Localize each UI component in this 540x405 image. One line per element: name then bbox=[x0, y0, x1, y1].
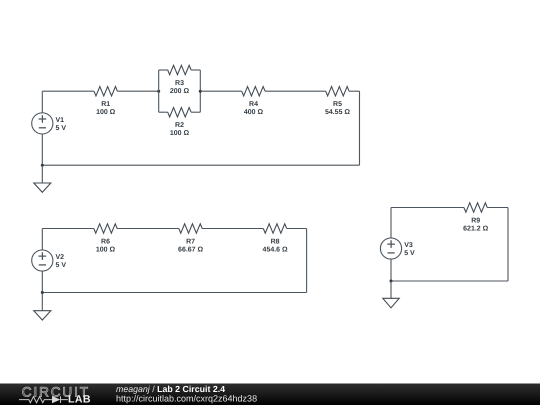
wire ground3 stub bbox=[390, 281, 392, 298]
node ground1 junction bbox=[41, 164, 44, 167]
wire ground1 stub bbox=[41, 165, 43, 183]
svg-text:5 V: 5 V bbox=[404, 250, 415, 257]
voltage source V1 bbox=[32, 113, 53, 134]
wire V2 top stub bbox=[41, 229, 43, 250]
wire top left to R6 bbox=[42, 228, 94, 230]
ground bbox=[383, 298, 399, 308]
wire bottom circuit1 bbox=[42, 164, 359, 166]
wire top left to R1 bbox=[42, 90, 94, 92]
svg-text:R8: R8 bbox=[271, 238, 280, 245]
svg-text:54.55 Ω: 54.55 Ω bbox=[325, 109, 350, 116]
svg-text:100 Ω: 100 Ω bbox=[96, 247, 116, 254]
svg-text:R9: R9 bbox=[471, 217, 480, 224]
wire ground2 stub bbox=[41, 293, 43, 311]
logo wire glyph bbox=[19, 396, 68, 403]
svg-text:R1: R1 bbox=[101, 101, 110, 108]
label V1 5V bbox=[56, 117, 67, 132]
ground bbox=[34, 183, 51, 192]
wire R4 to R5 bbox=[265, 90, 326, 92]
wire V3 top stub bbox=[390, 208, 392, 238]
wire right vertical circuit2 bbox=[306, 229, 308, 293]
wire R8 to right edge bbox=[287, 228, 307, 230]
node ground2 junction bbox=[41, 291, 44, 294]
svg-text:100 Ω: 100 Ω bbox=[96, 109, 116, 116]
wire top left to R9 bbox=[391, 207, 464, 209]
wire R3 left lead bbox=[159, 69, 168, 71]
wire bottom circuit3 bbox=[391, 280, 508, 282]
svg-text:meaganj / Lab 2 Circuit 2.4: meaganj / Lab 2 Circuit 2.4 bbox=[116, 384, 225, 394]
svg-text:R2: R2 bbox=[175, 122, 184, 129]
svg-text:V1: V1 bbox=[56, 117, 65, 124]
wire parallel left vertical bbox=[158, 70, 160, 112]
resistor R6 bbox=[94, 224, 117, 233]
label R4 400 bbox=[244, 101, 264, 116]
wire V2 bottom stub bbox=[41, 271, 43, 292]
label V2 5V bbox=[56, 254, 67, 269]
resistor R2 bbox=[168, 107, 191, 116]
voltage source V3 bbox=[380, 238, 401, 259]
label R2 100 bbox=[170, 122, 190, 137]
voltage source V2 bbox=[32, 250, 53, 271]
label R5 54.55 bbox=[325, 101, 350, 116]
resistor R4 bbox=[242, 86, 265, 95]
wire V3 bottom stub bbox=[390, 259, 392, 281]
svg-text:5 V: 5 V bbox=[56, 125, 67, 132]
svg-text:R7: R7 bbox=[186, 238, 195, 245]
resistor R1 bbox=[94, 86, 117, 95]
svg-text:R5: R5 bbox=[333, 101, 342, 108]
wire node B to R4 bbox=[200, 90, 241, 92]
wire R3 right lead bbox=[191, 69, 200, 71]
label V3 5V bbox=[404, 242, 415, 257]
wire R2 left lead bbox=[159, 111, 168, 113]
svg-text:200 Ω: 200 Ω bbox=[170, 88, 190, 95]
resistor R8 bbox=[263, 224, 286, 233]
node ground3 junction bbox=[390, 280, 393, 283]
node B bbox=[199, 90, 202, 93]
resistor R5 bbox=[326, 86, 349, 95]
svg-text:R6: R6 bbox=[101, 238, 110, 245]
label R9 621.2 bbox=[463, 217, 488, 232]
logo diode triangle bbox=[52, 396, 60, 403]
label R1 100 bbox=[96, 101, 116, 116]
wire V1 bottom stub bbox=[41, 134, 43, 165]
svg-text:454.6 Ω: 454.6 Ω bbox=[263, 247, 288, 254]
svg-text:R3: R3 bbox=[175, 80, 184, 87]
svg-text:66.67 Ω: 66.67 Ω bbox=[178, 247, 203, 254]
svg-text:V3: V3 bbox=[404, 242, 413, 249]
svg-text:400 Ω: 400 Ω bbox=[244, 109, 264, 116]
resistor R7 bbox=[179, 224, 202, 233]
label R6 100 bbox=[96, 238, 116, 253]
wire right vertical circuit1 bbox=[359, 91, 361, 165]
svg-text:100 Ω: 100 Ω bbox=[170, 130, 190, 137]
svg-text:621.2 Ω: 621.2 Ω bbox=[463, 226, 488, 233]
svg-text:LAB: LAB bbox=[68, 394, 91, 405]
wire R5 to right edge bbox=[349, 90, 360, 92]
wire right vertical circuit3 bbox=[507, 208, 509, 282]
wire bottom circuit2 bbox=[42, 292, 306, 294]
node A bbox=[157, 90, 160, 93]
wire R7 to R8 bbox=[202, 228, 263, 230]
svg-text:5 V: 5 V bbox=[56, 262, 67, 269]
label R7 66.67 bbox=[178, 238, 203, 253]
wire R2 right lead bbox=[191, 111, 200, 113]
ground bbox=[34, 311, 51, 320]
resistor R9 bbox=[464, 203, 487, 212]
wire R9 to right edge bbox=[487, 207, 508, 209]
wire R1 to node A bbox=[117, 90, 158, 92]
wire parallel right vertical bbox=[199, 70, 201, 112]
wire V1 top stub bbox=[41, 91, 43, 113]
resistor R3 bbox=[168, 65, 191, 74]
svg-text:R4: R4 bbox=[249, 101, 258, 108]
label R8 454.6 bbox=[263, 238, 288, 253]
svg-text:http://circuitlab.com/cxrq2z64: http://circuitlab.com/cxrq2z64hdz38 bbox=[116, 393, 257, 403]
footer bar bbox=[0, 384, 540, 405]
label R3 200 bbox=[170, 80, 190, 95]
wire R6 to R7 bbox=[117, 228, 179, 230]
svg-text:V2: V2 bbox=[56, 254, 65, 261]
